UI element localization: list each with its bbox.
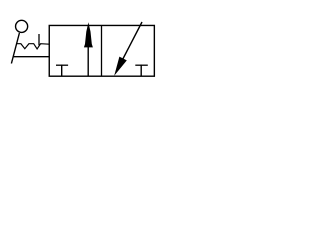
detent notch profile xyxy=(16,44,49,49)
roller xyxy=(16,20,28,32)
lever xyxy=(11,33,19,64)
flow path diagonal arrow (right square) xyxy=(114,22,142,76)
link to valve xyxy=(13,56,49,58)
flow path arrow up (left square) xyxy=(84,22,93,76)
blocked port T (left square) xyxy=(56,65,68,77)
detent pin xyxy=(38,34,40,45)
position divider xyxy=(101,25,103,76)
valve body (two position squares) xyxy=(49,25,154,76)
blocked port T (right square) xyxy=(135,65,148,77)
